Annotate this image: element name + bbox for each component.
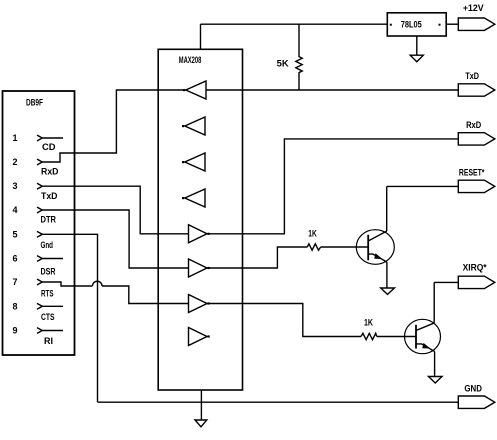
receiver U1D triangle <box>185 189 205 207</box>
transistor Q1 <box>356 230 394 265</box>
wire RTS continued <box>102 286 189 304</box>
receiver U1B triangle <box>185 117 205 135</box>
connector XIRQ* <box>458 263 495 289</box>
svg-text:DB9F: DB9F <box>26 98 43 108</box>
svg-text:RESET*: RESET* <box>459 167 485 177</box>
node dot U1D output <box>182 197 184 199</box>
ground rail wire to GND connector <box>98 401 459 403</box>
svg-text:1K: 1K <box>364 317 373 327</box>
connector +12V <box>458 3 495 31</box>
wire top rail to 78L05 input <box>201 23 388 25</box>
svg-text:RxD: RxD <box>466 120 482 130</box>
pin 1 stub wire <box>43 137 64 139</box>
node dot U1C output <box>182 161 184 163</box>
svg-text:2: 2 <box>13 157 18 167</box>
pin 6 chevron <box>37 256 42 262</box>
wire R3 to Q2 base <box>377 336 416 338</box>
svg-text:+12V: +12V <box>463 3 484 13</box>
svg-text:5K: 5K <box>277 59 290 69</box>
wire U1A input to TxD connector <box>206 89 458 91</box>
wire pin5 Gnd down to ground rail <box>43 234 98 402</box>
svg-text:CD: CD <box>42 142 56 152</box>
driver U1E triangle <box>189 225 208 243</box>
svg-text:1K: 1K <box>308 228 317 238</box>
node dot U1H output <box>208 335 210 337</box>
resistor R2 1K <box>307 244 320 250</box>
pin dot U2 input <box>390 24 392 26</box>
svg-text:4: 4 <box>13 205 18 215</box>
svg-text:MAX208: MAX208 <box>179 55 202 65</box>
pin 9 chevron <box>37 328 42 334</box>
pin 5 chevron <box>37 231 42 237</box>
wire Q1 collector to RESET* line <box>386 186 388 231</box>
svg-text:78L05: 78L05 <box>401 20 422 30</box>
svg-text:XIRQ*: XIRQ* <box>463 263 487 273</box>
wire U2 output to +12V connector <box>446 23 458 25</box>
svg-text:6: 6 <box>13 254 18 264</box>
ground symbol under U2 <box>410 55 423 62</box>
node dot U1F output <box>208 267 210 269</box>
svg-text:GND: GND <box>464 384 482 394</box>
wire pin7 RTS to driver U1G input with hop <box>43 282 93 286</box>
node dot U1E output <box>208 233 210 235</box>
resistor R3 1K <box>361 333 377 339</box>
svg-text:3: 3 <box>13 181 18 191</box>
wire Q2 collector to XIRQ* line <box>433 282 435 323</box>
svg-text:RTS: RTS <box>41 289 54 299</box>
wire pin2 RxD to receiver U1A output <box>43 90 186 162</box>
pin 6 stub wire <box>43 258 64 260</box>
svg-text:5: 5 <box>13 229 18 239</box>
svg-text:Gnd: Gnd <box>41 240 54 250</box>
ground stem U1 <box>200 390 202 420</box>
pin 3 chevron <box>37 183 42 189</box>
svg-text:RI: RI <box>44 336 53 346</box>
wire Q2 emitter to ground <box>434 352 436 377</box>
transistor Q2 <box>405 319 441 353</box>
wire U1F output toward R2 <box>207 247 307 268</box>
connector TxD <box>458 71 495 96</box>
driver U1G triangle <box>189 295 208 313</box>
svg-text:8: 8 <box>13 301 18 311</box>
driver U1H triangle <box>189 328 208 346</box>
driver U1F triangle <box>189 259 208 277</box>
svg-text:DTR: DTR <box>41 215 57 225</box>
pin 1 chevron <box>37 135 42 141</box>
wire pin3 TxD to driver U1E input <box>43 186 189 234</box>
svg-text:CTS: CTS <box>41 312 55 322</box>
ground stem U2 <box>416 36 418 55</box>
connector GND <box>458 384 495 409</box>
svg-text:1: 1 <box>13 133 18 143</box>
pin 8 stub wire <box>43 305 64 307</box>
wire hop over ground drop <box>93 281 103 286</box>
svg-text:DSR: DSR <box>41 266 56 276</box>
pin 7 chevron <box>37 279 42 285</box>
pin dot U2 output <box>439 24 441 26</box>
pin 9 stub wire <box>43 330 64 332</box>
pin 2 chevron <box>37 159 42 165</box>
wire U1G output toward R3 <box>207 304 361 337</box>
svg-text:7: 7 <box>13 277 18 287</box>
pin 4 chevron <box>37 207 42 213</box>
ground symbol under Q2 <box>429 377 443 384</box>
connector RxD <box>458 120 495 145</box>
wire pin4 DTR to driver U1F input <box>43 210 189 268</box>
wire RESET* line to connector <box>387 185 459 187</box>
pin 8 chevron <box>37 303 42 309</box>
connector RESET* <box>458 167 495 192</box>
connector J1 DB9F box <box>3 91 75 355</box>
resistor R1 5K <box>296 24 302 90</box>
wire Q1 emitter to ground <box>386 262 388 288</box>
ground symbol under U1 <box>195 420 207 427</box>
IC U1 MAX208 box <box>158 49 242 390</box>
svg-text:9: 9 <box>13 326 18 336</box>
svg-text:TxD: TxD <box>465 71 479 81</box>
svg-text:RxD: RxD <box>41 167 59 177</box>
ground symbol under Q1 <box>381 288 395 294</box>
wire U1E output to RxD connector <box>207 139 458 234</box>
receiver U1C triangle <box>185 153 205 171</box>
wire XIRQ* line to connector <box>434 281 458 283</box>
wire U1 Vcc stem to top rail <box>200 24 202 49</box>
node dot U1G output <box>208 302 210 304</box>
node dot U1B output <box>182 125 184 127</box>
receiver U1A triangle <box>186 81 206 99</box>
node dot U1A output <box>183 89 185 91</box>
wire R2 to Q1 base <box>321 246 369 248</box>
svg-text:TxD: TxD <box>41 191 58 201</box>
voltage regulator U2 78L05 box <box>387 13 446 36</box>
